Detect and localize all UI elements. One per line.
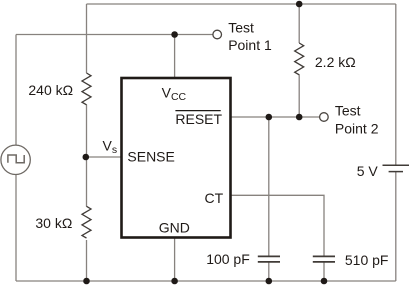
svg-text:SENSE: SENSE bbox=[127, 148, 174, 164]
battery 5V long plate bbox=[383, 164, 409, 166]
test point 1 circle bbox=[213, 30, 222, 39]
wire bottom rail bbox=[16, 280, 396, 282]
node junction bottom / 100pF bbox=[266, 278, 273, 285]
wire divider vertical upper (top rail to R1) bbox=[86, 4, 88, 73]
wire right rail lower bbox=[395, 172, 397, 281]
node junction top rail / 2.2k bbox=[296, 1, 303, 8]
svg-text:5 V: 5 V bbox=[357, 163, 379, 179]
wire divider vertical middle (R1 to R2) bbox=[86, 105, 88, 207]
wire top rail bbox=[87, 3, 396, 5]
node junction bottom / 510pF bbox=[321, 278, 328, 285]
wire CT line bbox=[231, 195, 325, 255]
capacitor C2 510pF plates bbox=[313, 256, 335, 262]
wire second rail horizontal bbox=[16, 34, 213, 36]
svg-text:CT: CT bbox=[205, 190, 224, 206]
wire reset line bbox=[231, 116, 320, 118]
wire left rail upper bbox=[15, 35, 17, 146]
node junction bottom / GND bbox=[171, 278, 178, 285]
test point 2 circle bbox=[320, 113, 329, 122]
wire Vcc pin bbox=[174, 35, 176, 79]
wire 510pF branch lower bbox=[323, 262, 325, 281]
wire sense stub bbox=[86, 156, 122, 158]
svg-text:GND: GND bbox=[159, 220, 190, 236]
node junction bottom / divider bbox=[83, 278, 90, 285]
svg-text:30 kΩ: 30 kΩ bbox=[35, 215, 72, 231]
svg-text:Test: Test bbox=[228, 20, 254, 36]
wire 2.2k branch lower bbox=[298, 75, 300, 118]
wire GND pin bbox=[174, 238, 176, 282]
svg-text:Test: Test bbox=[335, 103, 361, 119]
svg-text:100 pF: 100 pF bbox=[206, 251, 250, 267]
svg-text:510 pF: 510 pF bbox=[345, 252, 389, 268]
wire 100pF branch lower bbox=[268, 262, 270, 281]
wire divider vertical lower (R2 to bottom rail) bbox=[86, 240, 88, 281]
resistor 30k bbox=[82, 206, 91, 238]
node Vs junction bbox=[83, 154, 90, 161]
svg-text:RESET: RESET bbox=[175, 111, 222, 127]
pin label RESET overline bbox=[175, 110, 220, 112]
battery 5V short plate bbox=[389, 171, 403, 173]
node junction reset / 2.2k bbox=[296, 114, 303, 121]
svg-text:Point 2: Point 2 bbox=[335, 120, 379, 136]
svg-text:2.2 kΩ: 2.2 kΩ bbox=[315, 54, 356, 70]
svg-text:240 kΩ: 240 kΩ bbox=[28, 82, 73, 98]
pulse source circle bbox=[1, 145, 30, 174]
wire 100pF branch upper bbox=[268, 117, 270, 256]
op-amp U1 box bbox=[122, 78, 231, 238]
node junction second rail / Vcc bbox=[171, 31, 178, 38]
pulse source waveform glyph bbox=[8, 155, 24, 163]
wire left rail lower bbox=[15, 175, 17, 281]
svg-text:Vs: Vs bbox=[103, 138, 118, 157]
wire right rail upper bbox=[395, 4, 397, 165]
node junction reset / 100pF bbox=[266, 114, 273, 121]
resistor 240k bbox=[82, 73, 91, 105]
svg-text:Point 1: Point 1 bbox=[228, 37, 272, 53]
wire 2.2k branch upper bbox=[298, 4, 300, 43]
resistor 2.2k bbox=[295, 43, 304, 75]
capacitor C1 100pF plates bbox=[258, 256, 280, 262]
